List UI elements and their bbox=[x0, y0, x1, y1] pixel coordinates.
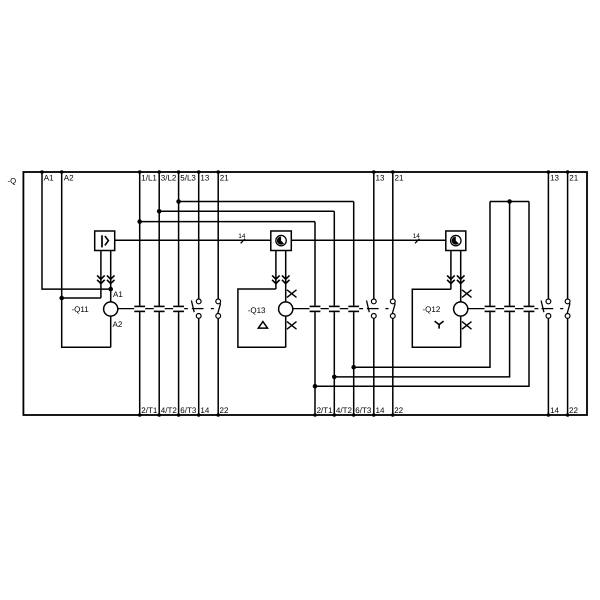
main contact Q13 phase2 bbox=[329, 305, 340, 307]
wire Q12 driver output left bbox=[450, 251, 452, 290]
junction dot 6/T3 bottom bbox=[177, 413, 181, 417]
wire Q13 block outline bbox=[238, 289, 286, 347]
junction dot L1 tap bbox=[137, 219, 142, 224]
junction dot 14 bottom Q11 bbox=[197, 413, 201, 417]
mechanical linkage Q11 bbox=[118, 308, 188, 310]
junction A2 node bbox=[59, 296, 64, 301]
wire control line 14 segment Q11-Q13 bbox=[115, 239, 271, 241]
mechanical linkage Q13 bbox=[293, 308, 363, 310]
junction dot 22 bottom Q13 bbox=[391, 413, 395, 417]
svg-text:14: 14 bbox=[200, 406, 209, 415]
junction dot 1/L1 top bbox=[138, 170, 142, 174]
timer driver U13 symbol bbox=[276, 235, 286, 245]
svg-text:14: 14 bbox=[376, 406, 385, 415]
junction dot A1 top terminal bbox=[40, 170, 44, 174]
wire main contact column Q13-3 bbox=[353, 202, 355, 416]
svg-text:1/L1: 1/L1 bbox=[141, 173, 157, 182]
wire main contact column Q12-2 bbox=[334, 202, 509, 377]
wire number tick 14 (left) bbox=[241, 239, 245, 244]
disconnect mark Q13 upper bbox=[287, 290, 297, 298]
wire aux contact column 13-14 Q13 bbox=[373, 172, 375, 415]
junction dot 21 top Q12 bbox=[566, 170, 570, 174]
wire main contact column Q13-2 bbox=[333, 211, 335, 415]
disconnect mark Q13 lower bbox=[287, 322, 297, 330]
main contact Q13 phase1 bbox=[310, 305, 321, 307]
svg-text:14: 14 bbox=[550, 406, 559, 415]
aux contact NC 21-22 Q11 bbox=[216, 299, 221, 304]
delta symbol Q13 bbox=[258, 322, 267, 329]
svg-text:21: 21 bbox=[395, 173, 404, 182]
coupling driver U11 symbol bbox=[101, 235, 103, 247]
aux contact NC 21-22 Q12 bbox=[565, 299, 570, 304]
wire coil Q13 down bbox=[285, 316, 287, 347]
wire number tick 14 (right) bbox=[415, 239, 419, 244]
junction dot 4/T2 bottom Q13 bbox=[333, 413, 337, 417]
svg-text:-Q13: -Q13 bbox=[248, 306, 266, 315]
junction dot A2 top terminal bbox=[60, 170, 64, 174]
timer driver U12 symbol bbox=[451, 235, 461, 245]
wire main contact column Q13-1 bbox=[314, 222, 316, 415]
junction dot L2 tap bbox=[157, 209, 162, 214]
plug-in connector marks Q13 right bbox=[282, 275, 290, 279]
svg-text:-Q12: -Q12 bbox=[423, 305, 441, 314]
star-point bus Q12 bbox=[490, 201, 529, 203]
svg-text:14: 14 bbox=[238, 233, 246, 240]
junction dot 5/L3 top bbox=[177, 170, 181, 174]
main contact Q12 phase2 bbox=[504, 305, 515, 307]
wire control line 14 segment Q13-Q12 bbox=[291, 239, 446, 241]
main contact Q11 L3 bbox=[173, 305, 184, 307]
junction dot 21 top Q13 bbox=[391, 170, 395, 174]
wire A1 feeder bbox=[42, 172, 111, 289]
coil -Q11 bbox=[104, 302, 118, 316]
star symbol Q12 bbox=[435, 321, 444, 329]
main contact Q11 L2 bbox=[154, 305, 165, 307]
junction dot L3 tap bbox=[176, 199, 181, 204]
junction dot 2/T1 bottom bbox=[138, 413, 142, 417]
svg-text:-Q: -Q bbox=[8, 177, 17, 186]
wire L3 link to Q13 bbox=[179, 201, 354, 203]
wire L1 link to Q13 bbox=[140, 221, 315, 223]
starter assembly -Q boundary bbox=[23, 172, 587, 415]
wire aux contact column 21-22 Q13 bbox=[392, 172, 394, 415]
aux contact NO 13-14 Q11 bbox=[196, 299, 201, 304]
wire main contact column 1/L1-2/T1 bbox=[139, 172, 141, 415]
svg-text:13: 13 bbox=[200, 173, 209, 182]
svg-text:14: 14 bbox=[413, 233, 421, 240]
svg-text:6/T3: 6/T3 bbox=[180, 406, 197, 415]
disconnect mark Q12 lower bbox=[462, 322, 472, 330]
wire L2 link to Q13 bbox=[159, 210, 334, 212]
wire Q12 driver output right bbox=[460, 251, 462, 303]
wire main contact column 3/L2-4/T2 bbox=[158, 172, 160, 415]
plug-in connector marks Q11 left bbox=[97, 275, 105, 279]
svg-text:4/T2: 4/T2 bbox=[336, 406, 353, 415]
wire coil Q12 down bbox=[460, 316, 462, 347]
disconnect mark Q12 upper bbox=[462, 290, 472, 298]
svg-text:13: 13 bbox=[376, 173, 385, 182]
plug-in connector marks Q11 right bbox=[107, 275, 115, 279]
main contact Q12 phase1 bbox=[485, 305, 496, 307]
junction dot Q13-1 bottom tap bbox=[313, 384, 318, 389]
junction dot 14 bottom Q12 bbox=[547, 413, 551, 417]
wire main contact column Q12-1 bbox=[354, 202, 490, 368]
wire coil Q11 A2 down bbox=[110, 316, 112, 347]
svg-text:2/T1: 2/T1 bbox=[141, 406, 158, 415]
coupling driver U11 box bbox=[95, 231, 115, 251]
svg-text:4/T2: 4/T2 bbox=[161, 406, 178, 415]
plug-in connector marks Q13 left bbox=[272, 275, 280, 279]
aux contact NO 13-14 Q13 bbox=[371, 299, 376, 304]
mechanical linkage Q12 bbox=[468, 308, 539, 310]
wire main contact column Q12-3 bbox=[315, 202, 529, 387]
wire A2 to Q11 driver return bbox=[62, 297, 101, 299]
wire A2 down to coil A2 bbox=[62, 298, 111, 347]
junction dot 6/T3 bottom Q13 bbox=[352, 413, 356, 417]
svg-text:5/L3: 5/L3 bbox=[180, 173, 196, 182]
plug-in connector marks Q12 right bbox=[457, 275, 465, 279]
junction dot 13 top Q12 bbox=[547, 170, 551, 174]
wire Q13 driver output left bbox=[275, 251, 277, 290]
svg-text:22: 22 bbox=[569, 406, 578, 415]
junction dot Q13-2 bottom tap bbox=[332, 375, 337, 380]
svg-text:A1: A1 bbox=[44, 173, 54, 182]
svg-text:A2: A2 bbox=[113, 320, 123, 329]
wire Q13 driver output right bbox=[285, 251, 287, 303]
main contact Q11 L1 bbox=[134, 305, 145, 307]
plug-in connector marks Q12 left bbox=[447, 275, 455, 279]
coil -Q12 bbox=[454, 302, 468, 316]
svg-text:3/L2: 3/L2 bbox=[161, 173, 177, 182]
junction dot 14 bottom Q13 bbox=[372, 413, 376, 417]
wire aux contact column 21-22 Q12 bbox=[567, 172, 569, 415]
wire aux contact column 13-14 Q12 bbox=[547, 172, 549, 415]
main contact Q12 phase3 bbox=[524, 305, 535, 307]
svg-text:6/T3: 6/T3 bbox=[355, 406, 372, 415]
svg-text:2/T1: 2/T1 bbox=[317, 406, 334, 415]
wire Q11 driver output left bbox=[100, 251, 102, 299]
junction dot star bus bbox=[507, 199, 512, 204]
svg-text:22: 22 bbox=[394, 406, 403, 415]
junction node A1 of coil Q11 bbox=[108, 287, 113, 292]
svg-text:A1: A1 bbox=[113, 290, 123, 299]
junction dot 3/L2 top bbox=[157, 170, 161, 174]
svg-text:13: 13 bbox=[550, 173, 559, 182]
junction dot Q13-3 bottom tap bbox=[351, 365, 356, 370]
wire Q11 driver output right bbox=[110, 251, 112, 303]
timer driver U12 box bbox=[446, 231, 466, 251]
aux contact NC 21-22 Q13 bbox=[390, 299, 395, 304]
aux contact NO 13-14 Q12 bbox=[546, 299, 551, 304]
wire aux contact column 21-22 Q11 bbox=[217, 172, 219, 415]
coil -Q13 bbox=[279, 302, 293, 316]
wire Q12 block outline bbox=[412, 289, 460, 347]
svg-text:22: 22 bbox=[220, 406, 229, 415]
junction dot 4/T2 bottom bbox=[157, 413, 161, 417]
junction dot 22 bottom Q11 bbox=[216, 413, 220, 417]
svg-text:21: 21 bbox=[569, 173, 578, 182]
wire main contact column 5/L3-6/T3 bbox=[178, 172, 180, 415]
wire A2 feeder bbox=[61, 172, 63, 298]
main contact Q13 phase3 bbox=[348, 305, 359, 307]
svg-text:A2: A2 bbox=[64, 173, 74, 182]
junction dot 21 top Q11 bbox=[216, 170, 220, 174]
junction dot 2/T1 bottom Q13 bbox=[313, 413, 317, 417]
svg-text:-Q11: -Q11 bbox=[72, 305, 90, 314]
junction dot 13 top Q11 bbox=[197, 170, 201, 174]
junction dot 22 bottom Q12 bbox=[566, 413, 570, 417]
svg-text:21: 21 bbox=[220, 173, 229, 182]
junction dot 13 top Q13 bbox=[372, 170, 376, 174]
wire aux contact column 13-14 Q11 bbox=[198, 172, 200, 415]
timer driver U13 box bbox=[271, 231, 292, 251]
